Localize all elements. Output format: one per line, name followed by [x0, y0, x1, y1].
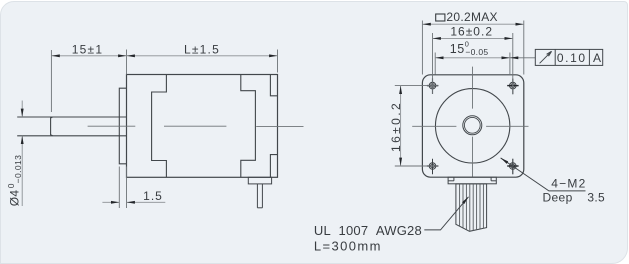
- centerline (side view axis): [88, 125, 304, 127]
- rear end-cap step contour: [241, 75, 256, 178]
- svg-text:Ø40−0.013: Ø40−0.013: [6, 155, 23, 207]
- dimension 15 0/-0.05 (boss): [435, 53, 510, 75]
- svg-text:16±0.2: 16±0.2: [389, 101, 403, 152]
- front end-cap step contour: [152, 75, 167, 178]
- centerline horizontal (front view): [412, 125, 528, 127]
- wire bundle (front view, hatched): [456, 184, 487, 231]
- dimension 16±0.2 horizontal (hole spacing): [433, 33, 513, 94]
- svg-text:L±1.5: L±1.5: [184, 42, 220, 56]
- svg-text:20.2MAX: 20.2MAX: [446, 10, 497, 24]
- mounting hole M2 top-right: [507, 79, 518, 95]
- front flange plate 1.5 thick: [119, 88, 126, 164]
- svg-text:1.5: 1.5: [143, 189, 163, 203]
- text φ4 0/-0.013 (rotated): [6, 155, 23, 207]
- runout tolerance frame: [535, 49, 602, 65]
- dimension 16±0.2 vertical (hole spacing): [395, 86, 439, 166]
- wire connector (front view): [448, 177, 496, 184]
- svg-text:4−M2: 4−M2: [551, 177, 586, 191]
- motor body (side view): [127, 75, 278, 178]
- svg-text:A: A: [593, 51, 601, 65]
- wire connector (side view): [248, 177, 271, 184]
- mounting hole M2 bottom-right: [507, 159, 518, 175]
- dimension φ4 (shaft diameter): [21, 101, 23, 207]
- front face square 20.2: [422, 75, 523, 177]
- svg-text:16±0.2: 16±0.2: [450, 25, 493, 39]
- svg-text:UL 1007 AWG28: UL 1007 AWG28: [314, 223, 422, 238]
- centerline vertical (front view): [472, 67, 474, 178]
- text □20.2MAX: [436, 14, 445, 21]
- dimension □20.2MAX: [422, 21, 523, 75]
- leader to wire bundle: [424, 197, 468, 230]
- text 16±0.2 (left, rotated): [389, 101, 403, 152]
- shaft circle φ4: [463, 116, 482, 135]
- svg-text:15±1: 15±1: [72, 42, 103, 56]
- leader 4-M2: [501, 158, 586, 191]
- mounting hole M2 top-left: [427, 78, 438, 94]
- dimension 1.5 (flange thickness): [102, 167, 165, 209]
- dimension L±1.5 (body length): [127, 50, 278, 73]
- svg-text:0.10: 0.10: [557, 51, 587, 65]
- rear cover corner step (top): [270, 75, 277, 96]
- svg-text:L=300mm: L=300mm: [314, 239, 382, 254]
- pilot boss circle φ15: [435, 89, 509, 163]
- svg-text:150−0.05: 150−0.05: [450, 39, 489, 57]
- lead wire (side view): [257, 184, 262, 208]
- shaft chamfer circle: [464, 117, 480, 133]
- dimension 15±1 (shaft length): [51, 50, 126, 113]
- shaft (side view): [17, 117, 126, 136]
- svg-text:Deep 3.5: Deep 3.5: [543, 191, 606, 205]
- runout tolerance frame leader: [510, 57, 535, 59]
- rear cover corner step (bottom): [270, 155, 277, 178]
- mounting hole M2 bottom-left: [427, 159, 438, 175]
